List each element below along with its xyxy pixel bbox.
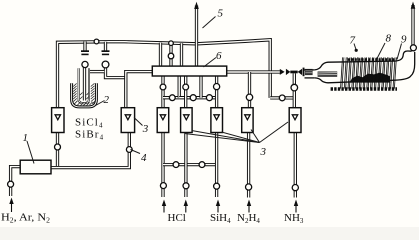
valve circle column 4 inlet [246, 184, 252, 190]
valve circle L1 lower [55, 144, 61, 150]
svg-text:7: 7 [350, 35, 356, 47]
flowmeter F1 [157, 108, 169, 133]
svg-text:2: 2 [104, 94, 110, 106]
valve circle drop B lower [168, 53, 174, 59]
valve circle on header at drop B [169, 41, 174, 46]
pointer line label 5 [203, 17, 216, 29]
reactor neck ground plug [305, 69, 313, 75]
flowmeter F3 [211, 108, 223, 133]
valve circle lower link left [173, 162, 179, 168]
valve circle bypass [279, 95, 285, 101]
flowmeter F5 [289, 108, 301, 133]
furnace coil 8 windings [341, 57, 397, 88]
arrow inlet H2 [9, 198, 13, 213]
pointer line label 2 [96, 101, 105, 106]
svg-text:5: 5 [218, 8, 224, 20]
wire drop C header to manifold [180, 43, 183, 66]
wire dip tube into bubbler [83, 67, 86, 101]
wire link2 between pipe B and column 3 [179, 96, 216, 99]
arrow on main line to reactor [280, 69, 285, 75]
pointer line label 4 [131, 150, 141, 154]
valve circle column 3 upper [214, 84, 220, 90]
wire main line manifold to reactor [227, 70, 281, 73]
wire bottom line from purifier to riser [51, 132, 129, 167]
arrow vent 5 [194, 2, 199, 9]
valve circle column 2 inlet [183, 183, 189, 189]
wire column 3 below flowmeter [215, 132, 218, 197]
pointer line label 9 [397, 44, 402, 60]
wire inlet to purifier 1 [11, 167, 21, 196]
reactor neck flange [303, 68, 305, 77]
svg-text:3: 3 [260, 146, 267, 158]
pointer line label 1 [27, 141, 34, 164]
wire column 2 manifold to flowmeter F2 [184, 76, 187, 108]
wire flowmeter L1 to bottom line [56, 132, 59, 167]
wire link1 between column 1 and pipe B [163, 96, 179, 99]
reactor inlet nozzle [318, 71, 338, 77]
flowmeter F4 [242, 108, 253, 133]
pointer line label 3 left [134, 118, 143, 126]
deposit in reactor tube [350, 73, 391, 83]
wire column 1 manifold to flowmeter F1 [161, 76, 164, 108]
pointer line label 6 [204, 58, 217, 68]
wire top header line with left drop to flowmeter L1 and right drop to bypass [58, 40, 271, 108]
valve circle column 4 upper [246, 94, 252, 100]
reactor neck [305, 70, 315, 78]
stopcock V2 ball [102, 61, 109, 68]
stopcock V2 joint ticks [102, 50, 110, 55]
valve circle lower link right [199, 162, 205, 168]
valve circle column 5 inlet [292, 185, 298, 191]
valve circle link2 right [206, 95, 212, 101]
valve circle header near bubbler [94, 39, 99, 44]
stopcock tee barrel [290, 71, 297, 74]
arrow inlet SiH4 [216, 200, 220, 213]
wire from stopcock V2 elbow to flowmeter R1 riser [106, 67, 126, 78]
wire stub to stopcock V2 [104, 42, 107, 51]
purifier 1 [20, 160, 51, 174]
wire column 4 below flowmeter [247, 132, 250, 197]
valve circle outlet riser [410, 45, 416, 51]
reactor tube 7 outline [315, 51, 415, 83]
bubbler 2 inner jacket tube [79, 68, 89, 103]
svg-text:4: 4 [141, 152, 147, 164]
svg-text:1: 1 [23, 132, 29, 144]
wire reactor outlet riser [411, 5, 414, 52]
wire bypass horizontal to column 5 [270, 96, 294, 99]
wire column 2 below flowmeter [184, 132, 187, 197]
wire lower link columns 1-3 [163, 163, 217, 166]
wire column 5 below flowmeter [294, 132, 297, 197]
valve circle column 3 inlet [214, 183, 220, 189]
svg-text:3: 3 [142, 123, 149, 135]
wire column 3 manifold to flowmeter F3 [215, 76, 218, 108]
wire column 4 from main line to flowmeter F4 [248, 72, 251, 108]
label SiCl4 SiBr4 [75, 117, 104, 142]
svg-text:8: 8 [386, 33, 392, 45]
wire pipe C from manifold to link2 [199, 76, 202, 98]
svg-text:9: 9 [401, 34, 407, 46]
stopcock V1 joint ticks [81, 50, 89, 55]
wire vent tube 5 [195, 6, 198, 67]
arrow inlet NH3 [294, 200, 298, 213]
wire pipe B from manifold [178, 76, 181, 98]
furnace coil bottom row [331, 87, 397, 90]
pointer line label 8 [377, 43, 386, 60]
bubbler 2 outer vessel [72, 83, 97, 107]
svg-text:6: 6 [216, 50, 222, 62]
valve circle 4 riser [126, 147, 132, 153]
valve circle link1 [169, 95, 175, 101]
bubbler 2 liquid hatching [73, 83, 95, 105]
svg-text:H2, Ar, N2: H2, Ar, N2 [1, 212, 51, 225]
arrow inlet N2H4 [247, 200, 251, 213]
valve circle link2 left [190, 95, 196, 101]
arrow inlet HCl b [184, 200, 188, 213]
stopcock tee left cone [286, 69, 290, 75]
valve circle main inlet [8, 181, 14, 187]
arrow outlet [411, 2, 416, 9]
wire bubbler side arm [89, 70, 104, 73]
wire drop A header to manifold [159, 43, 162, 67]
wire flowmeter R1 riser to manifold [126, 72, 153, 108]
valve circle column 2 upper [183, 84, 189, 90]
wire column 5 stem from stopcock tee to flowmeter F5 [293, 73, 296, 108]
arrow inlet HCl a [162, 200, 166, 213]
valve circle column 1 inlet [160, 183, 166, 189]
wire stub to stopcock V1 [83, 42, 86, 52]
valve circle column 5 stem [291, 84, 298, 91]
furnace coil top row [348, 58, 395, 61]
flowmeter R1 [121, 108, 134, 133]
pointer line label 7 with dot [354, 44, 358, 52]
flowmeter L1 [52, 108, 64, 133]
manifold 6 [152, 66, 226, 76]
svg-text:HCl: HCl [168, 212, 186, 224]
wire column 1 below flowmeter to inlet [161, 132, 164, 197]
stopcock tee right cone [298, 69, 302, 75]
pointer lines label 3 right fan [185, 122, 289, 143]
stopcock V1 ball [82, 61, 88, 67]
flowmeter F2 [181, 108, 193, 133]
valve circle column 1 upper [160, 84, 166, 90]
wire drop B header to manifold with valves [169, 43, 172, 66]
